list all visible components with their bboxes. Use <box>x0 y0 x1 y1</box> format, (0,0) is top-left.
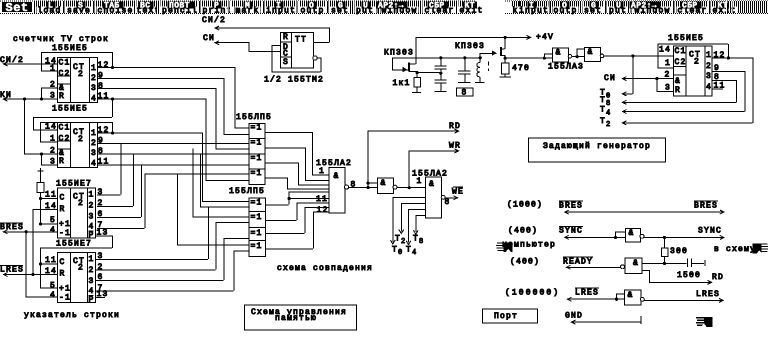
svg-text:LRES: LRES <box>0 266 24 275</box>
menu item clear <box>677 7 709 14</box>
wire U2 pin11 output to XOR g3B <box>97 164 248 166</box>
wire Q1 gate feedback <box>392 69 402 71</box>
menu item choise <box>97 7 135 14</box>
menu hotkey АР2↑→ <box>630 2 661 9</box>
svg-text:BRES: BRES <box>694 202 718 211</box>
wire branch to XOR g8A <box>177 174 179 246</box>
menu item outp <box>300 7 326 14</box>
wire КИ down to U2 pins 2,3 <box>24 99 26 154</box>
svg-text:S: S <box>283 58 289 67</box>
ground Q1 source <box>412 92 421 94</box>
capacitor C1 <box>440 57 442 65</box>
menu hotkey КТ <box>716 2 730 9</box>
svg-text:1: 1 <box>706 51 712 60</box>
svg-text:4: 4 <box>606 109 610 117</box>
svg-text:&: & <box>628 291 634 300</box>
wire g1 output to NAND U8 in1 <box>264 132 312 134</box>
svg-text:2: 2 <box>78 199 84 208</box>
svg-text:КП303: КП303 <box>455 42 485 51</box>
svg-text:=1: =1 <box>251 124 263 133</box>
svg-text:C2: C2 <box>675 58 687 67</box>
menu hotkey P <box>213 2 222 9</box>
svg-text:-1: -1 <box>59 294 71 303</box>
svg-text:300: 300 <box>670 247 688 256</box>
svg-text:LRES: LRES <box>575 289 599 298</box>
svg-text:12: 12 <box>317 206 329 215</box>
svg-text:АР2↑→: АР2↑→ <box>631 2 657 11</box>
svg-text:C1: C1 <box>675 47 687 56</box>
menu item set <box>330 7 350 14</box>
XOR gate g2 <box>249 139 265 154</box>
svg-text:14: 14 <box>45 123 57 132</box>
svg-text:14: 14 <box>659 46 671 55</box>
svg-text:1/2 155ТМ2: 1/2 155ТМ2 <box>264 76 324 85</box>
svg-text:4: 4 <box>50 226 56 235</box>
XOR gate g7 <box>249 228 266 241</box>
NAND U11a 155ЛА3 <box>553 48 569 62</box>
menu item print <box>202 7 234 14</box>
wire g4 output to NAND U8 in4 <box>264 177 287 179</box>
svg-text:2: 2 <box>606 121 610 129</box>
U13 output bubble <box>640 234 644 238</box>
svg-text:=1: =1 <box>251 154 263 163</box>
wire U2 pin9 output to XOR g2A <box>97 142 248 144</box>
svg-text:155ЛП5: 155ЛП5 <box>236 113 272 122</box>
wire U5 pin2 output to XOR g6B <box>95 269 216 271</box>
wire U2 pin12 output to XOR g5 <box>97 132 202 134</box>
menu stripes right bar <box>511 1 768 13</box>
svg-text:S: S <box>78 2 83 11</box>
menu hotkey S <box>77 2 86 9</box>
crystal dashed line <box>487 62 489 71</box>
svg-text:8: 8 <box>98 82 104 91</box>
wire U5 C pin 11 <box>40 263 57 265</box>
svg-text:=1: =1 <box>251 213 263 222</box>
svg-text:счетчик TV строк: счетчик TV строк <box>13 35 109 44</box>
wire g6 output to NAND U8 in6 <box>265 219 297 221</box>
svg-text:470: 470 <box>512 64 530 73</box>
svg-text:G: G <box>338 2 343 11</box>
svg-text:O: O <box>562 2 567 11</box>
wire U1.11 down to g4B <box>205 99 207 181</box>
svg-text:схема совпадения: схема совпадения <box>277 264 373 273</box>
svg-text:R: R <box>60 270 66 279</box>
menu hotkey ПОВТ <box>168 2 195 9</box>
wire U1 pin8 output <box>97 88 216 90</box>
wire U1.9 down to g1B <box>223 78 225 135</box>
svg-text:в схему: в схему <box>714 245 756 254</box>
resistor R3 470 <box>504 58 506 63</box>
svg-text:+1: +1 <box>59 220 71 229</box>
wire T2 input to U9 <box>400 203 402 231</box>
wire U1 pin12 output <box>97 67 234 69</box>
svg-text:RD: RD <box>712 273 724 282</box>
svg-text:2: 2 <box>89 202 95 211</box>
svg-text:2: 2 <box>78 135 84 144</box>
wire U12 pin8 to T8 tap <box>712 79 736 81</box>
svg-text:SYNC: SYNC <box>698 227 722 236</box>
wire LRES rail to U4 R pin 14 <box>33 209 58 211</box>
menu hotkey O <box>561 2 570 9</box>
wire U4 pin2 output joins row g3A <box>97 205 133 207</box>
menu item pencil <box>161 7 199 14</box>
wire T8 input to U9 <box>415 215 417 232</box>
IC U12 155ИЕ5 counter <box>673 46 712 96</box>
capacitor C3 <box>464 57 466 70</box>
wire КИ to U1 pins 2,3 <box>3 98 57 100</box>
IC U4 155ИЕ7 up/down counter <box>58 188 96 238</box>
wire g8 output to NAND U8 in8 <box>265 248 313 250</box>
svg-text:R: R <box>60 205 66 214</box>
menu bar top dotted border <box>0 0 768 2</box>
svg-text:-1: -1 <box>59 229 71 238</box>
svg-text:(400): (400) <box>508 227 538 236</box>
svg-text:BRES: BRES <box>0 223 24 232</box>
svg-text:&: & <box>556 49 562 58</box>
wire U12 pin9 to T4 tap <box>712 70 745 72</box>
wire U11b output to U12 pin14 <box>604 55 673 57</box>
U11b output bubble <box>600 54 604 58</box>
menu item exit <box>712 7 738 14</box>
wire U5 pin6 output to XOR g7B <box>95 279 224 281</box>
svg-text:C: C <box>60 258 66 267</box>
NAND U14 READY gate <box>625 258 642 273</box>
menu item set <box>583 7 603 14</box>
svg-text:1: 1 <box>91 129 97 138</box>
wire СИ to TM2 C input <box>215 42 249 44</box>
svg-text:2: 2 <box>694 58 700 67</box>
wire U13 output to SYNC right <box>644 236 724 238</box>
wire U5 pin3 output to XOR g5B <box>95 258 208 260</box>
menu item mark <box>235 7 261 14</box>
ground C2 <box>434 91 446 93</box>
capacitor C2 <box>440 73 442 80</box>
U9 output bubble <box>441 195 445 199</box>
svg-text:GND: GND <box>565 312 583 321</box>
svg-text:U: U <box>616 2 621 11</box>
wire Q2 source to U11 <box>505 57 552 59</box>
menu item clear <box>424 7 456 14</box>
svg-text:155ИЕ7: 155ИЕ7 <box>56 240 92 249</box>
svg-text:BRES: BRES <box>559 202 583 211</box>
menu hotkey I <box>275 2 284 9</box>
svg-text:LRES: LRES <box>696 290 720 299</box>
svg-text:0: 0 <box>398 249 402 257</box>
svg-text:P: P <box>89 296 95 305</box>
svg-text:155ИЕ7: 155ИЕ7 <box>56 180 92 189</box>
wire g7 output to NAND U8 in7 <box>265 233 305 235</box>
ground R3 <box>500 76 511 78</box>
svg-text:(400): (400) <box>510 258 540 267</box>
wire U15 output to LRES right <box>644 299 723 301</box>
U14 output bubble left <box>621 265 625 269</box>
wire U1.12 down to g1A <box>234 67 236 128</box>
menu item window <box>634 7 672 14</box>
hand icon в схему <box>753 243 768 253</box>
svg-text:8: 8 <box>445 198 451 207</box>
svg-text:2: 2 <box>401 238 405 246</box>
wire U8 output to inverter U10 <box>349 187 377 189</box>
svg-text:R: R <box>675 86 681 95</box>
wire R4 node to U14 input <box>641 262 664 264</box>
svg-text:&: & <box>629 229 635 238</box>
svg-text:КП303: КП303 <box>384 49 414 58</box>
svg-text:4: 4 <box>706 83 712 92</box>
svg-text:1к1: 1к1 <box>393 79 411 88</box>
wire g3 output to NAND U8 in3 <box>264 162 298 164</box>
svg-text:1: 1 <box>89 255 95 264</box>
svg-text:&: & <box>633 259 639 268</box>
svg-text:(100000): (100000) <box>505 289 560 298</box>
svg-text:C: C <box>60 194 66 203</box>
svg-text:M: M <box>245 2 250 11</box>
svg-text:АР2↑→: АР2↑→ <box>378 2 404 11</box>
menu hotkey I <box>528 2 537 9</box>
menu hotkey АР2↑→ <box>377 2 408 9</box>
svg-text:155ИЕ5: 155ИЕ5 <box>52 44 88 53</box>
NAND U11b 155ЛА3 <box>585 48 601 62</box>
wire U10 output to NAND U9 <box>397 187 425 189</box>
svg-text:=1: =1 <box>251 229 263 238</box>
wire GND row <box>571 321 640 323</box>
svg-text:155ИЕ5: 155ИЕ5 <box>668 34 704 43</box>
NAND U8 155ЛА2 8-input <box>329 168 345 213</box>
svg-text:8: 8 <box>462 89 468 98</box>
svg-text:СИ: СИ <box>604 74 616 83</box>
svg-text:4: 4 <box>50 291 56 300</box>
svg-text:1: 1 <box>89 191 95 200</box>
svg-text:&: & <box>588 48 594 57</box>
wire WR tap <box>408 150 410 187</box>
svg-text:СИ/2: СИ/2 <box>202 16 226 25</box>
wire U3 Qbar feedback to D <box>317 57 320 59</box>
svg-text:Set: Set <box>6 1 29 15</box>
svg-text:(1000): (1000) <box>507 201 543 210</box>
svg-text:C1: C1 <box>59 124 71 133</box>
svg-text:2: 2 <box>91 74 97 83</box>
svg-text:&: & <box>675 77 681 86</box>
wire BRES to U4 -1 pin 4 <box>3 231 57 233</box>
svg-text:КТ: КТ <box>465 2 475 11</box>
svg-text:G: G <box>591 2 596 11</box>
svg-text:12: 12 <box>98 61 110 70</box>
wire U4 pin6 output joins row g3B <box>97 217 141 219</box>
svg-text:&: & <box>381 179 387 188</box>
XOR gate g6 <box>249 212 266 228</box>
transistor Q2 КП303 JFET <box>500 47 502 56</box>
wire cascade U1 pin11 to U2 pin14 <box>112 99 114 117</box>
svg-text:RD: RD <box>449 122 461 131</box>
wire U5 +1 pin 5 <box>40 287 57 289</box>
wire U2 pin8 output to XOR g3A <box>97 153 248 155</box>
wire U12 feedback pin12 to pin1 <box>727 56 730 59</box>
svg-text:1500: 1500 <box>677 271 701 280</box>
ground C3 <box>458 81 470 83</box>
menu hotkey L <box>47 2 56 9</box>
svg-text:C2: C2 <box>59 70 71 79</box>
menu hotkey СБР <box>428 2 449 9</box>
svg-text:+1: +1 <box>59 285 71 294</box>
svg-text:1: 1 <box>417 177 423 186</box>
svg-text:5: 5 <box>50 282 56 291</box>
wire U1 pin2 <box>41 87 57 89</box>
wire U4 +1 pin 5 <box>40 223 57 225</box>
wire U4 P pin13 cascade to U5 <box>95 235 112 237</box>
wire BRES row <box>564 211 724 213</box>
menu item window <box>381 7 419 14</box>
svg-text:СИ: СИ <box>203 34 215 43</box>
menu item input <box>518 7 550 14</box>
svg-text:&: & <box>429 180 435 189</box>
svg-text:12: 12 <box>714 51 726 60</box>
wire U11a to U11b <box>572 56 584 58</box>
wire U1 pin9 output <box>97 77 224 79</box>
menu hotkey ВС <box>139 2 154 9</box>
svg-text:СБР: СБР <box>682 2 698 11</box>
svg-text:I: I <box>276 2 281 11</box>
svg-text:SYNC: SYNC <box>559 227 583 236</box>
svg-text:155ЛА3: 155ЛА3 <box>548 63 584 72</box>
wire RD tap <box>367 131 369 183</box>
svg-text:1: 1 <box>665 59 671 68</box>
svg-text:=1: =1 <box>251 242 263 251</box>
inductor L1 quartz <box>479 57 481 62</box>
wire U1 feedback pin12 to pin1 <box>41 51 112 53</box>
svg-text:9: 9 <box>98 137 104 146</box>
svg-text:=1: =1 <box>251 139 263 148</box>
XOR gate g4 <box>249 169 265 184</box>
svg-text:1: 1 <box>91 64 97 73</box>
resistor R2 1к1 <box>416 72 418 77</box>
svg-text:&: & <box>334 172 340 181</box>
svg-text:4: 4 <box>91 95 97 104</box>
svg-text:P: P <box>214 2 219 11</box>
wire LRES row to gate U15 <box>567 298 624 300</box>
IC U5 155ИЕ7 up/down counter <box>58 253 96 303</box>
wire T4 input to U9 <box>408 209 410 243</box>
menu item text <box>136 7 162 14</box>
menu item exit <box>459 7 485 14</box>
svg-text:11: 11 <box>98 92 110 101</box>
menu hotkey ТАБ <box>103 2 124 9</box>
menu hotkey СБР <box>681 2 702 9</box>
svg-text:=1: =1 <box>251 169 263 178</box>
svg-text:4: 4 <box>91 160 97 169</box>
svg-text:11: 11 <box>316 195 328 204</box>
capacitor C4 1500 <box>664 262 687 264</box>
svg-text:3: 3 <box>50 158 56 167</box>
svg-text:3: 3 <box>91 84 97 93</box>
box: Задающий генератор <box>529 138 666 162</box>
wire U4 pin3 output joins row g2A <box>97 194 121 196</box>
box Порт <box>483 309 538 323</box>
menu item input <box>265 7 297 14</box>
svg-text:155ИЕ5: 155ИЕ5 <box>52 105 88 114</box>
svg-text:C1: C1 <box>59 59 71 68</box>
Set logo <box>2 2 32 12</box>
svg-text:2: 2 <box>98 263 104 272</box>
wire T0 tap <box>632 55 634 93</box>
svg-text:2: 2 <box>89 266 95 275</box>
svg-text:2: 2 <box>706 62 712 71</box>
wire U1.8 down to g2B <box>215 88 217 149</box>
svg-text:T: T <box>301 36 307 45</box>
menu hotkey O <box>308 2 317 9</box>
wire U4 C pin 11 <box>40 197 57 199</box>
svg-text:3: 3 <box>89 213 95 222</box>
svg-text:1: 1 <box>50 65 56 74</box>
menu item load <box>37 7 63 14</box>
svg-text:9: 9 <box>98 72 104 81</box>
svg-text:I: I <box>529 2 534 11</box>
svg-text:4: 4 <box>412 249 416 257</box>
svg-text:U: U <box>363 2 368 11</box>
menu bar bottom dotted border <box>0 13 768 15</box>
svg-text:=1: =1 <box>251 199 263 208</box>
right bar end separator <box>728 1 731 13</box>
svg-text:2: 2 <box>91 139 97 148</box>
pullup + symbol <box>38 168 44 174</box>
wire Q2 gate from oscillator node <box>479 53 481 57</box>
wire branch to XOR g6A <box>192 148 194 217</box>
NAND U13 SYNC gate <box>626 229 641 242</box>
resistor R4 300 <box>663 237 665 248</box>
svg-text:3: 3 <box>665 84 671 93</box>
menu item save <box>66 7 92 14</box>
U11a output bubble <box>568 54 572 58</box>
wire U4 pin7 output to XOR g4A <box>97 228 144 230</box>
svg-text:R: R <box>59 92 65 101</box>
wire СИ/2 to U1 pin 14 <box>3 63 57 65</box>
wire СИ/2 from TM2 Q output <box>215 27 329 29</box>
svg-text:k: k <box>513 7 519 16</box>
wire SYNC row to gate U13 <box>564 236 625 238</box>
XOR gate g1 <box>249 124 265 139</box>
hand icon компьютер <box>496 242 513 252</box>
svg-text:C2: C2 <box>59 135 71 144</box>
ground L1 <box>475 81 485 83</box>
menu hotkey M <box>244 2 253 9</box>
svg-text:O: O <box>309 2 314 11</box>
IC U2 155ИЕ5 counter <box>58 123 98 168</box>
wire BRES rail to U5 -1 pin 4 <box>26 296 57 298</box>
XOR gate g8 <box>249 241 266 257</box>
svg-text:READY: READY <box>563 258 593 267</box>
menu hotkey КТ <box>463 2 477 9</box>
inverter U10 (155ЛА3) <box>378 178 394 193</box>
wire СИ to U12 pins 2,3 <box>622 78 673 80</box>
svg-text:+4V: +4V <box>536 33 554 42</box>
XOR gate g3 <box>249 154 265 169</box>
menu item put <box>355 7 375 14</box>
U10 output bubble <box>393 185 397 189</box>
wire g5 output to NAND U8 in5 and U9 <box>265 204 289 206</box>
svg-text:Задающий генератор: Задающий генератор <box>543 142 651 151</box>
+4V power rail <box>417 36 529 38</box>
svg-text:WR: WR <box>449 142 461 151</box>
svg-text:155ЛП5: 155ЛП5 <box>229 187 265 196</box>
svg-text:Порт: Порт <box>494 312 518 321</box>
wire WE output <box>445 197 458 199</box>
wire cap junction to Q1 source <box>417 72 441 74</box>
svg-text:R: R <box>59 157 65 166</box>
svg-text:1: 1 <box>319 167 325 176</box>
IC U1 155ИЕ5 counter <box>58 58 98 103</box>
XOR gate g5 <box>249 198 266 211</box>
svg-text:8: 8 <box>419 238 423 246</box>
svg-text:L: L <box>48 2 53 11</box>
U3 Qbar output bubble <box>313 56 317 60</box>
